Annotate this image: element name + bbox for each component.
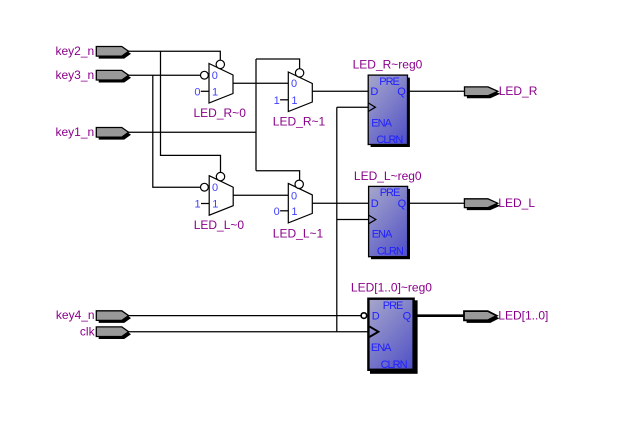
svg-text:ENA: ENA [372,229,393,241]
wire clk vertical trunk [336,107,338,332]
svg-text:LED_L~reg0: LED_L~reg0 [354,169,422,183]
mux LED_R~1 select bubble [295,69,303,77]
svg-text:LED_R~reg0: LED_R~reg0 [353,57,423,71]
input pin key3_n [96,70,131,82]
mux LED_L~0 [209,176,233,216]
wire clk to LED_R~reg0 clock [337,106,368,108]
input pin clk [96,327,131,339]
wire LED_L~1 output to LED_L~reg0 D [312,202,368,204]
svg-text:0: 0 [194,86,200,98]
dff LED_R~reg0 port labels [370,76,406,146]
svg-text:1: 1 [291,206,297,218]
bus wire LED[1..0]~reg0 Q to output pin LED[1..0] [415,314,465,317]
mux LED_R~0 input labels [212,70,218,98]
dff LED_R~reg0 [368,75,410,147]
input pin label key4_n [56,308,95,322]
svg-text:key2_n: key2_n [55,44,94,58]
svg-text:clk: clk [80,324,96,338]
svg-text:1: 1 [212,199,218,211]
svg-text:0: 0 [212,182,218,194]
mux label LED_L~1 [273,226,324,240]
svg-text:LED_R~0: LED_R~0 [194,106,247,120]
mux LED_R~0 [209,64,233,104]
mux LED_R~1 input labels [291,78,297,107]
constant 1 on LED_L~0 input1 [195,199,210,211]
input pin key4_n [96,311,131,323]
wire key2_n horizontal to LED_R~0 select [128,51,220,61]
wire LED_R~1 output to LED_R~reg0 D [312,90,368,92]
wire LED_L~0 output to LED_L~1 input0 [233,194,288,196]
svg-text:ENA: ENA [371,342,392,354]
svg-text:key4_n: key4_n [56,308,95,322]
svg-text:CLRN: CLRN [376,134,403,146]
svg-text:0: 0 [291,190,297,202]
svg-text:D: D [371,198,379,210]
wire key1_n vertical trunk [255,59,257,171]
constant 0 on LED_L~1 input1 [274,206,289,218]
wire key3_n branch down to LED_L~0 input0 bubble [153,75,201,187]
svg-text:ENA: ENA [371,117,392,129]
dff LED[1..0]~reg0 clock triangle [369,326,378,337]
wire LED_L~reg0 Q to output pin LED_L [408,202,465,204]
svg-text:CLRN: CLRN [381,359,408,371]
input pin key1_n [96,128,131,140]
mux label LED_R~0 [194,106,247,120]
mux LED_R~1 [288,72,312,112]
output pin LED_R [465,87,501,98]
svg-text:Q: Q [398,198,407,210]
svg-text:LED_L~0: LED_L~0 [194,218,245,232]
dff LED[1..0]~reg0 (bus register) [368,299,417,374]
wire LED_R~reg0 Q to output pin LED_R [408,90,465,92]
mux LED_R~0 select bubble [216,60,224,68]
dff label LED[1..0]~reg0 [351,280,432,294]
mux label LED_L~0 [194,218,245,232]
svg-text:key3_n: key3_n [55,68,94,82]
svg-text:1: 1 [212,86,218,98]
svg-text:D: D [372,311,380,323]
constant 1 on LED_R~1 input1 [274,95,289,107]
svg-text:0: 0 [212,70,218,82]
wire key4_n to LED[1..0]~reg0 D bubble [128,315,361,317]
mux label LED_R~1 [273,114,326,128]
wire key1_n to LED_L~1 select [256,171,300,182]
svg-text:1: 1 [274,95,280,107]
svg-text:Q: Q [397,86,406,98]
wire clk to LED_L~reg0 clock [337,219,369,221]
svg-text:1: 1 [291,95,297,107]
output pin LED[1..0] [464,311,499,323]
output pin LED_L [464,199,500,210]
wire key2_n branch down to LED_L~0 select [161,51,221,173]
dff LED_L~reg0 port labels [371,187,407,258]
svg-text:CLRN: CLRN [377,246,404,258]
wire key3_n horizontal to LED_R~0 input0 bubble [128,74,201,76]
constant 0 on LED_R~0 input1 [194,86,209,98]
dff LED_L~reg0 clock triangle [369,215,376,224]
dff LED_L~reg0 [369,186,410,259]
wire key1_n horizontal [128,131,256,133]
svg-text:LED_R~1: LED_R~1 [273,114,326,128]
svg-text:LED[1..0]: LED[1..0] [498,308,548,322]
dff LED_R~reg0 clock triangle [368,103,375,112]
svg-text:D: D [370,86,378,98]
mux LED_L~0 input labels [212,182,218,210]
svg-text:LED[1..0]~reg0: LED[1..0]~reg0 [351,280,432,294]
wire key1_n to LED_R~1 select [256,59,300,69]
dff label LED_L~reg0 [354,169,422,183]
output pin label LED[1..0] [498,308,548,322]
wire clk horizontal to LED[1..0]~reg0 clock [128,331,368,333]
mux LED_R~0 input0 bubble [201,71,209,79]
output pin label LED_L [498,196,535,210]
dff label LED_R~reg0 [353,57,423,71]
svg-text:key1_n: key1_n [55,125,94,139]
dff LED[1..0]~reg0 D input bubble [361,313,367,319]
svg-text:PRE: PRE [383,300,403,312]
mux LED_L~1 select bubble [295,180,303,188]
input pin key2_n [96,47,131,59]
output pin label LED_R [499,84,538,98]
mux LED_L~0 input0 bubble [201,183,209,191]
input pin label clk [80,324,96,338]
mux LED_L~1 [288,183,312,223]
input pin label key3_n [55,68,94,82]
wire LED_R~0 output to LED_R~1 input0 [233,82,288,84]
input pin label key2_n [55,44,94,58]
svg-text:Q: Q [403,311,412,323]
mux LED_L~0 select bubble [216,172,224,180]
svg-text:LED_L~1: LED_L~1 [273,226,324,240]
svg-text:0: 0 [274,206,280,218]
svg-text:LED_L: LED_L [498,196,535,210]
svg-text:0: 0 [291,78,297,90]
mux LED_L~1 input labels [291,190,297,218]
input pin label key1_n [55,125,94,139]
svg-text:LED_R: LED_R [499,84,538,98]
dff LED[1..0]~reg0 port labels [371,300,412,371]
svg-text:1: 1 [195,199,201,211]
